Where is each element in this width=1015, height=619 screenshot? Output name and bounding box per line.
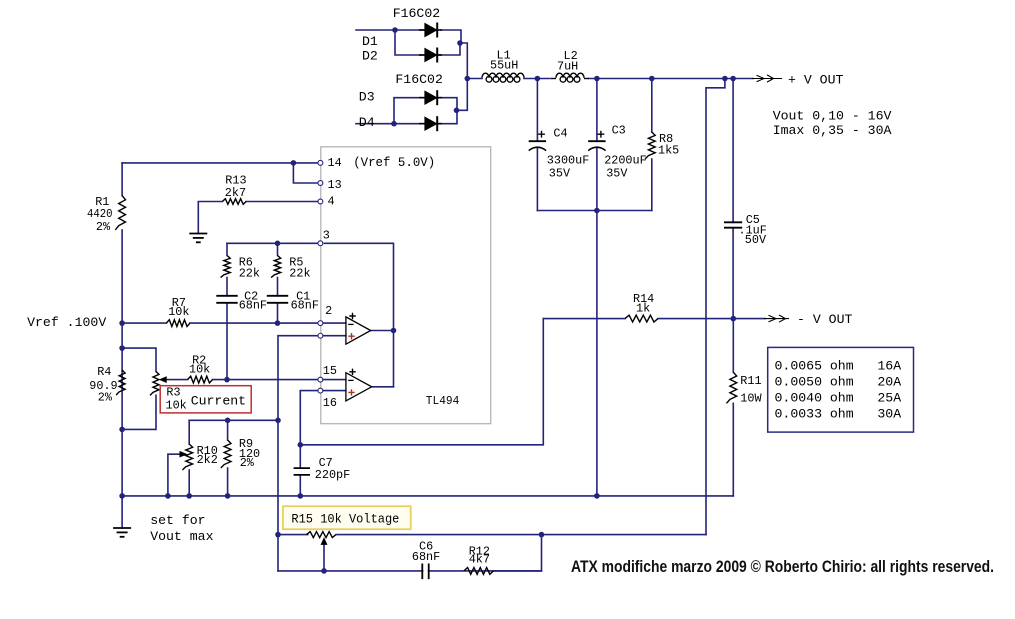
resistor R4 90.9 2% xyxy=(89,365,125,405)
wire op-amp 1 output xyxy=(371,330,394,332)
wire C3 bottom lead xyxy=(596,148,598,211)
resistor R9 120 2% xyxy=(221,437,260,470)
svg-text:35V: 35V xyxy=(549,167,571,181)
-V OUT arrow xyxy=(764,312,852,327)
pin 4 xyxy=(318,195,335,209)
svg-text:0.0065 ohm 16A: 0.0065 ohm 16A xyxy=(775,359,902,374)
wire R10 wiper to ground rail xyxy=(168,454,181,496)
wire C5 bottom lead to -V OUT node xyxy=(732,228,734,319)
svg-text:TL494: TL494 xyxy=(426,394,460,408)
junction ground rail / C7 xyxy=(298,493,304,499)
wire D4 cathode to D3/D4 junction xyxy=(438,110,457,123)
svg-text:14: 14 xyxy=(328,156,342,170)
wire -V line down to C7/pin16 junction xyxy=(300,319,543,445)
svg-text:68nF: 68nF xyxy=(412,550,440,564)
resistor R6 22k xyxy=(221,256,260,281)
svg-text:C3: C3 xyxy=(612,124,626,138)
wire R9 bottom lead xyxy=(227,468,229,496)
wire Vref node to R7 xyxy=(122,322,166,324)
svg-text:0.0050 ohm 20A: 0.0050 ohm 20A xyxy=(775,375,902,390)
wire C7 bottom to ground rail xyxy=(299,475,301,496)
wire R10 top lead xyxy=(188,420,190,444)
wire R3 bottom branch xyxy=(122,395,156,429)
svg-text:10W: 10W xyxy=(740,392,762,406)
wire R8 top lead xyxy=(651,79,653,133)
wire ground rail stub to ground symbol xyxy=(121,496,123,528)
node +V feedback tap xyxy=(722,76,728,82)
svg-text:2k2: 2k2 xyxy=(197,453,218,467)
svg-text:R4: R4 xyxy=(97,365,111,379)
op-amp U1 TL494 body outline xyxy=(321,147,491,424)
svg-text:Current: Current xyxy=(191,394,246,409)
wire R6 to C2 xyxy=(226,278,228,296)
junction D3/D4 cathodes xyxy=(454,108,460,114)
svg-text:2k7: 2k7 xyxy=(225,186,246,200)
ground symbol at R13 xyxy=(189,234,207,243)
wire R8 bottom lead xyxy=(651,159,653,211)
svg-text:2%: 2% xyxy=(98,391,113,405)
wire R13 to pin 4 xyxy=(246,201,318,203)
wire R5 top lead xyxy=(277,243,279,255)
wire op-amp output tie xyxy=(393,331,395,387)
capacitor C5 .1uF 50V xyxy=(724,213,767,247)
wire R13 left to ground xyxy=(198,202,222,234)
svg-text:22k: 22k xyxy=(289,267,310,281)
svg-text:220pF: 220pF xyxy=(315,468,350,482)
junction left rail / R3 bottom xyxy=(119,427,125,433)
svg-text:D4: D4 xyxy=(359,115,375,130)
svg-text:+ V OUT: + V OUT xyxy=(788,73,843,88)
wire D4 branch xyxy=(394,123,424,125)
wire pin 1 line down to feedback line xyxy=(278,336,317,571)
junction D3/D4 anode input xyxy=(391,121,397,127)
shunt selection table xyxy=(768,347,914,432)
node C3 tap on +V rail xyxy=(594,76,600,82)
junction pin1 line / divider top xyxy=(275,418,281,424)
wire pin 13 tie to pin 14 xyxy=(293,163,317,183)
wire D3 cathode to D3/D4 junction xyxy=(438,98,457,111)
wire op-amp 2 output xyxy=(372,386,394,388)
wire D4 anode input xyxy=(356,123,394,125)
svg-text:D2: D2 xyxy=(362,49,378,64)
svg-text:0.0033 ohm 30A: 0.0033 ohm 30A xyxy=(775,407,902,422)
junction ground rail / R10 xyxy=(186,493,192,499)
svg-text:ATX modifiche marzo 2009 © Rob: ATX modifiche marzo 2009 © Roberto Chiri… xyxy=(571,558,994,576)
svg-text:4k7: 4k7 xyxy=(469,553,490,567)
svg-text:Imax 0,35 - 30A: Imax 0,35 - 30A xyxy=(773,123,892,138)
svg-text:50V: 50V xyxy=(745,233,767,247)
wire R9 top lead xyxy=(227,420,229,440)
svg-text:F16C02: F16C02 xyxy=(393,6,440,21)
svg-text:C4: C4 xyxy=(553,127,567,141)
svg-text:set for: set for xyxy=(150,513,205,528)
junction op-amp outputs xyxy=(391,328,397,334)
resistor R2 10k xyxy=(188,354,213,384)
wire R15 wiper lead xyxy=(323,543,325,571)
wire R3 wiper to R2 xyxy=(165,379,188,381)
svg-text:0.0040 ohm 25A: 0.0040 ohm 25A xyxy=(775,391,902,406)
wire pin 16 into op-amp 2 xyxy=(323,390,346,392)
svg-text:35V: 35V xyxy=(606,167,628,181)
svg-text:D1: D1 xyxy=(362,34,378,49)
potentiometer R15 10k (voltage set) xyxy=(307,532,336,545)
resistor R5 22k xyxy=(271,256,310,281)
wire D1/D2 junction to rectifier node xyxy=(460,43,467,79)
wire C5 top lead xyxy=(732,79,734,223)
capacitor C3 2200uF 35V xyxy=(588,124,646,181)
junction filter bottom xyxy=(594,208,600,214)
svg-text:4420: 4420 xyxy=(87,207,113,221)
svg-text:2: 2 xyxy=(325,304,332,318)
wire R14 to -V OUT node xyxy=(658,318,765,320)
svg-text:10k: 10k xyxy=(189,363,210,377)
wire R11 top lead xyxy=(732,319,734,373)
pin 16 xyxy=(318,388,337,410)
potentiometer R3 10k (current set) xyxy=(150,372,166,396)
junction filter return on ground rail xyxy=(594,493,600,499)
junction D1/D2 cathodes xyxy=(457,40,463,46)
wire pin 16 down to C7 xyxy=(300,391,317,469)
junction R15 wiper / feedback line xyxy=(321,568,327,574)
label box R15 10k Voltage xyxy=(283,506,411,529)
wire pin 15 into op-amp 2 xyxy=(323,379,346,381)
svg-text:Vout 0,10 - 16V: Vout 0,10 - 16V xyxy=(773,109,892,124)
svg-text:68nF: 68nF xyxy=(239,299,267,313)
resistor R13 2k7 xyxy=(222,174,246,205)
capacitor C7 220pF xyxy=(294,456,351,482)
wire Vref rail to pin 14 xyxy=(122,162,317,164)
svg-text:1k5: 1k5 xyxy=(658,144,679,158)
ground symbol bottom left xyxy=(113,528,131,537)
svg-text:7uH: 7uH xyxy=(557,60,578,74)
svg-text:R3: R3 xyxy=(166,386,180,400)
wire R15 left end xyxy=(278,534,308,536)
wire pin 3 to op-amp outputs xyxy=(324,243,393,330)
diode D2 xyxy=(362,48,442,64)
wire D3/D4 junction to rectifier node xyxy=(457,79,468,111)
diode D1 xyxy=(362,23,442,50)
svg-text:2%: 2% xyxy=(240,456,255,470)
wire ground rail xyxy=(122,495,733,497)
op-amp 1 error amplifier xyxy=(346,313,371,344)
label box R3 10k Current xyxy=(160,386,251,413)
svg-text:3300uF: 3300uF xyxy=(547,154,589,168)
wire -V OUT line left of R14 xyxy=(543,318,625,320)
pin 15 xyxy=(318,364,337,382)
junction left rail / R3 top xyxy=(119,345,125,351)
wire R15 right end line to +V feedback xyxy=(336,534,706,536)
junction C7 / pin16 / R14 line xyxy=(298,442,304,448)
wire D2 cathode to D1/D2 junction xyxy=(438,43,460,55)
potentiometer R10 2k2 xyxy=(180,444,218,470)
diode D4 xyxy=(359,115,442,131)
svg-text:13: 13 xyxy=(328,178,342,192)
svg-text:R11: R11 xyxy=(740,374,761,388)
node C4 tap on +V rail xyxy=(535,76,541,82)
junction left rail / ground rail xyxy=(119,493,125,499)
resistor R14 1k xyxy=(625,292,658,322)
wire L1 to L2 through C4 tap xyxy=(524,78,550,80)
resistor R12 4k7 xyxy=(464,545,494,575)
wire C3 top lead xyxy=(596,79,598,142)
svg-text:- V OUT: - V OUT xyxy=(797,312,852,327)
svg-text:22k: 22k xyxy=(239,267,260,281)
label output specs xyxy=(773,109,892,139)
wire R12 to R15 line junction xyxy=(494,535,542,571)
svg-text:10k: 10k xyxy=(166,399,187,413)
pin 13 xyxy=(318,178,342,192)
svg-text:3: 3 xyxy=(323,229,330,243)
+V OUT arrow xyxy=(752,73,843,88)
note set for Vout max xyxy=(150,513,213,544)
resistor R8 1k5 xyxy=(645,132,679,159)
wire feedback line to C6 xyxy=(278,570,542,572)
wire C4 top lead xyxy=(536,79,538,142)
inductor L1 55uH xyxy=(482,49,524,83)
svg-text:R15 10k Voltage: R15 10k Voltage xyxy=(291,512,399,527)
junction pin15 line / C2 xyxy=(224,377,230,383)
pin 1 (IN1+) xyxy=(318,333,323,338)
wire +V rail jog down to R15 right end xyxy=(706,79,725,535)
node rectifier output xyxy=(465,76,471,82)
junction Vref node on left rail xyxy=(119,320,125,326)
junction R15 line / R12 branch xyxy=(539,532,545,538)
junction pin2 line / C1 xyxy=(275,320,281,326)
wire R7 to pin 2 xyxy=(190,322,317,324)
wire divider top line R10/R9 xyxy=(189,419,278,421)
node R8 tap on +V rail xyxy=(649,76,655,82)
diode D3 xyxy=(359,90,442,106)
svg-text:D3: D3 xyxy=(359,90,375,105)
wire filter bottom tie xyxy=(537,210,651,212)
wire R2 to pin 15 xyxy=(213,379,318,381)
capacitor C2 68nF xyxy=(216,289,267,312)
wire C4 bottom lead xyxy=(536,148,538,211)
svg-text:55uH: 55uH xyxy=(490,59,518,73)
capacitor C1 68nF xyxy=(267,289,319,312)
wire D2 branch from input node xyxy=(395,30,424,55)
junction pin14/pin13 tie xyxy=(291,160,297,166)
svg-text:2200uF: 2200uF xyxy=(604,154,646,168)
wire left rail top xyxy=(121,163,123,196)
node C5 tap on +V rail xyxy=(730,76,736,82)
junction pin3 line / R5 xyxy=(275,241,281,247)
svg-text:15: 15 xyxy=(323,364,337,378)
wire rectifier node to L1 xyxy=(467,78,482,80)
wire R5 to C1 xyxy=(277,278,279,296)
wire C3 bottom to ground rail xyxy=(596,211,598,496)
junction pin1 line / R15 left end xyxy=(275,532,281,538)
svg-text:10k: 10k xyxy=(168,305,189,319)
junction ground rail / R10 wiper xyxy=(165,493,171,499)
wire D1 cathode to D1/D2 junction xyxy=(441,30,461,43)
wire R6 top lead xyxy=(226,243,228,255)
wire R11 bottom lead to ground rail xyxy=(732,403,734,496)
wire D1 anode input xyxy=(356,29,424,31)
pin 3 xyxy=(318,229,330,246)
wire C1 down to pin 2 line xyxy=(277,303,279,323)
svg-text:2%: 2% xyxy=(96,220,111,234)
node -V OUT / R11 top xyxy=(731,316,737,322)
wire pin 3 line xyxy=(227,242,317,244)
svg-text:16: 16 xyxy=(323,396,337,410)
junction D1/D2 anode input xyxy=(392,27,398,33)
wire pin 1 into op-amp 1 xyxy=(323,335,346,337)
svg-text:(Vref 5.0V): (Vref 5.0V) xyxy=(353,155,435,170)
wire D3 branch from input node xyxy=(394,98,424,124)
pin 2 xyxy=(318,304,332,326)
inductor L2 7uH xyxy=(551,49,590,82)
pin 14 (Vref 5.0V) xyxy=(318,155,435,170)
junction ground rail / R9 xyxy=(225,493,231,499)
wire R10 bottom lead xyxy=(188,470,190,496)
op-amp 2 error amplifier xyxy=(346,369,372,401)
capacitor C4 3300uF 35V xyxy=(529,127,590,181)
svg-text:F16C02: F16C02 xyxy=(395,72,442,87)
wire pin 2 into op-amp 1 xyxy=(323,322,346,324)
svg-text:68nF: 68nF xyxy=(291,299,319,313)
svg-text:Vout max: Vout max xyxy=(150,529,213,544)
capacitor C6 68nF xyxy=(412,540,440,580)
resistor R1 4420 2% xyxy=(87,195,126,234)
svg-text:1k: 1k xyxy=(636,302,650,316)
resistor R11 10W shunt xyxy=(727,372,763,405)
resistor R7 10k xyxy=(166,296,190,327)
wire L2 to +V OUT xyxy=(589,78,753,80)
wire left rail below R1 xyxy=(121,230,123,496)
junction divider / R9 top xyxy=(225,418,231,424)
wire R3 top branch xyxy=(122,348,156,371)
wire C2 down to pin 15 line xyxy=(226,303,228,380)
svg-text:Vref .100V: Vref .100V xyxy=(27,315,106,330)
svg-text:4: 4 xyxy=(328,195,335,209)
